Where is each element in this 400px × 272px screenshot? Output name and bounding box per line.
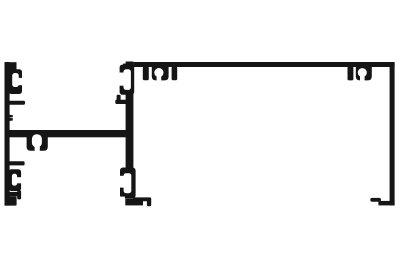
frame bottom right lip xyxy=(370,198,381,202)
right mullion wall xyxy=(126,62,134,170)
screw boss A xyxy=(152,67,169,82)
left wall lower hook arm xyxy=(9,192,18,196)
right lower gasket hook xyxy=(116,168,136,201)
left wall lower arm xyxy=(9,161,25,165)
left mullion wall xyxy=(5,62,10,206)
right wall arm nub xyxy=(117,95,121,101)
left wall top cap xyxy=(5,62,17,70)
right wall bottom lip xyxy=(133,197,151,201)
right wall bottom tick xyxy=(147,199,151,206)
tooth A2 xyxy=(172,67,178,81)
frame top rail xyxy=(133,62,394,67)
screw boss B xyxy=(356,67,372,82)
right wall arm xyxy=(115,100,127,104)
screw boss under mid bar xyxy=(27,133,48,152)
left lower gasket hook xyxy=(9,169,23,191)
transom mid bar xyxy=(9,130,130,137)
left wall upper arm xyxy=(9,101,26,105)
frame bottom right foot xyxy=(378,201,394,206)
right upper gasket hook xyxy=(117,65,135,95)
right wall bottom block xyxy=(125,199,143,206)
frame right jamb xyxy=(390,62,395,205)
right wall top nub xyxy=(123,64,128,68)
left wall serration xyxy=(9,115,13,121)
tooth A1 xyxy=(143,67,149,81)
tooth B xyxy=(348,67,354,81)
left wall lower hook nub xyxy=(17,190,21,199)
left wall foot xyxy=(5,196,17,205)
left upper gasket hook xyxy=(9,69,24,94)
